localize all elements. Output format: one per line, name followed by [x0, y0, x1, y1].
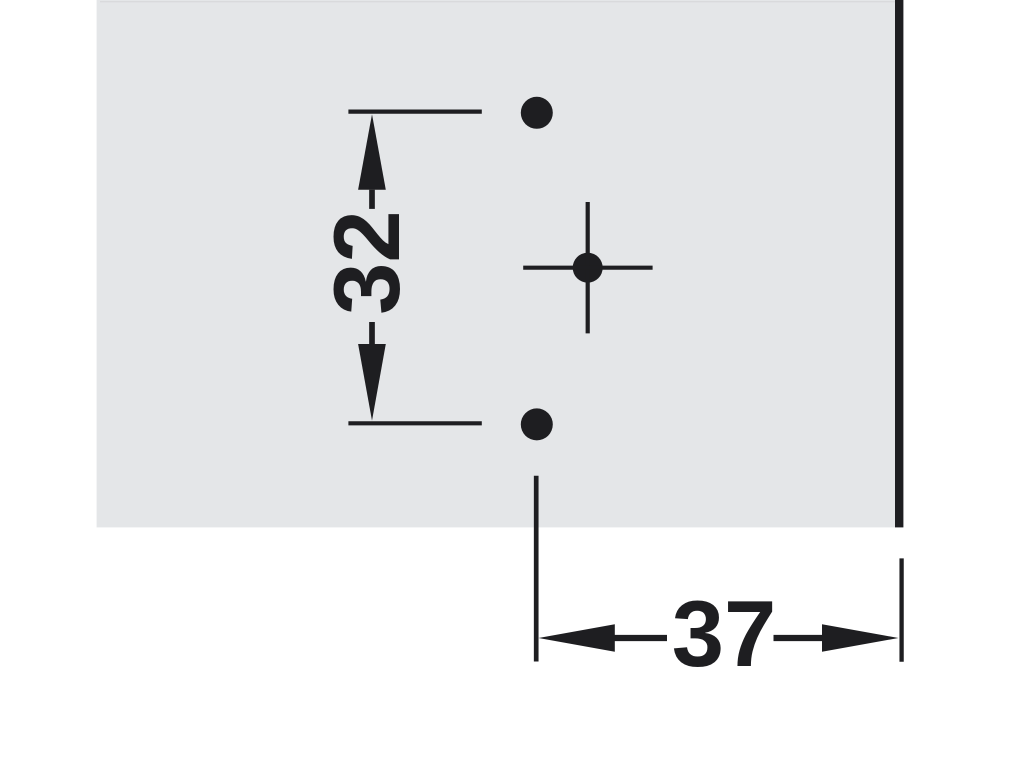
svg-text:32: 32	[314, 210, 419, 315]
svg-text:37: 37	[672, 581, 777, 686]
